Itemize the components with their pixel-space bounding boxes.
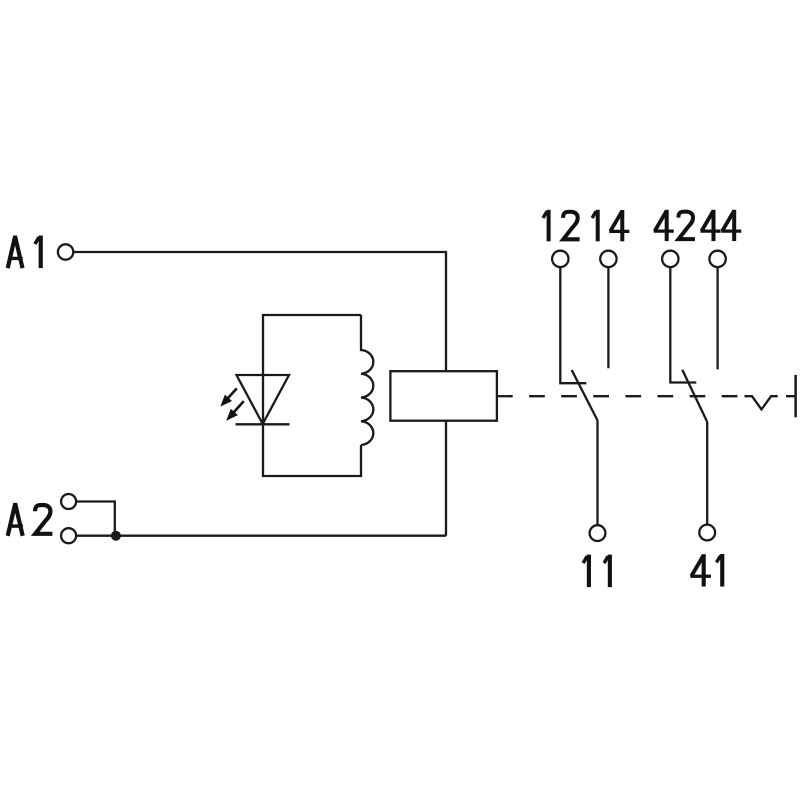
wire 14 [607, 267, 609, 368]
terminal label A1 [8, 236, 41, 269]
terminal A2 lower [61, 528, 76, 543]
indicator box with coil bumps on right edge [263, 315, 373, 476]
mechanical link dashed line [497, 395, 741, 397]
wire 41 [706, 422, 708, 525]
label 11 [583, 555, 610, 588]
terminal 14 [600, 251, 616, 267]
junction dot [111, 531, 121, 541]
mechanical link v notch [745, 396, 796, 409]
LED D1 triangle [237, 375, 290, 424]
label 12 [543, 210, 580, 242]
LED emission arrow 1 [220, 388, 237, 406]
label 44 [701, 210, 742, 241]
label 41 [690, 554, 722, 587]
label 42 [654, 210, 695, 241]
relay coil box K1 [390, 371, 497, 421]
label 14 [592, 210, 629, 242]
terminal A1 [58, 244, 73, 259]
contact blade 11-12 [572, 370, 598, 420]
wire A2 to coil net [76, 535, 446, 537]
terminal 42 [662, 251, 678, 267]
wire A1 to coil and down to A2 net [73, 252, 446, 536]
LED D1 cathode bar [236, 423, 290, 425]
wire 11 [596, 420, 598, 525]
wire 42 with contact foot [670, 267, 696, 382]
terminal 44 [709, 251, 725, 267]
terminal 11 [590, 525, 606, 541]
contact blade 41-42 [682, 370, 707, 422]
wire 12 with contact foot [560, 267, 586, 383]
LED emission arrow 2 [226, 401, 244, 421]
terminal A2 upper [61, 494, 76, 509]
end stop bar [794, 375, 797, 417]
terminal 41 [699, 525, 715, 541]
terminal 12 [552, 251, 568, 267]
wire A2 upper bridge [76, 502, 115, 536]
terminal label A2 [8, 505, 53, 536]
wire 44 [716, 267, 718, 369]
